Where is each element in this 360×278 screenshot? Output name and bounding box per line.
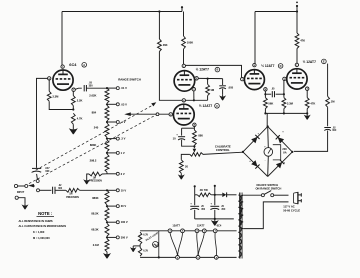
svg-text:E: E (323, 59, 325, 63)
wire bus to bridge top (266, 113, 268, 126)
capacitor 20uF output filter (210, 194, 219, 219)
label 46K (163, 43, 168, 47)
label 6C4 (69, 62, 77, 67)
label 6C4 heater (217, 224, 222, 228)
wire 100K to V2A plate (183, 49, 185, 64)
wire 46K to V2B plate (159, 52, 182, 101)
label note line 2 (19, 224, 67, 228)
tube V3A half 12AT7 (244, 70, 264, 90)
wire cathode bus (264, 109, 308, 115)
label 200 UA (282, 147, 287, 155)
svg-text:46K: 46K (163, 43, 168, 47)
ground chain2 (103, 252, 111, 259)
resistor 883K (105, 140, 109, 152)
resistor 2.62K (105, 88, 109, 103)
wire hum tap (133, 244, 140, 247)
svg-text:CONTROL: CONTROL (216, 148, 230, 152)
terminal input gnd (15, 196, 25, 203)
wire lamp rail (158, 231, 160, 258)
pin heater 5a (181, 229, 185, 233)
wire heater bottom bus (140, 256, 237, 258)
label .02 600 input (58, 185, 63, 190)
capacitor .047 600 DC block (32, 167, 41, 172)
tube V1 6C4 (53, 70, 73, 90)
wire heater lead 5 (215, 233, 217, 256)
svg-text:30 V: 30 V (121, 204, 127, 208)
capacitor .05 coupling (84, 85, 107, 91)
meter case bracket (273, 145, 281, 160)
label 12AT7 heaters B (197, 224, 205, 228)
svg-text:-: - (265, 158, 266, 162)
svg-text:883K: 883K (90, 143, 96, 147)
label 3.3M bias (287, 101, 294, 105)
switch S1 blade (28, 184, 35, 187)
label NOTE heading (37, 211, 55, 216)
diode D1 upper-left arm (251, 135, 259, 143)
svg-text:B: B (216, 68, 218, 72)
svg-text:47K: 47K (310, 101, 315, 105)
node tap .1V (106, 120, 126, 124)
svg-text:½ 12AT7: ½ 12AT7 (199, 104, 212, 108)
svg-text:RANGE SWITCH: RANGE SWITCH (118, 78, 141, 82)
diode D2 upper-right arm (276, 135, 284, 143)
node tap .03V (106, 102, 127, 106)
svg-text:300 V: 300 V (121, 235, 128, 239)
svg-text:1M: 1M (93, 177, 96, 179)
resistor 2.1M (105, 239, 109, 252)
label V2A circle (215, 67, 220, 72)
resistor 1M input precision (66, 188, 107, 192)
capacitor .02 600 AC input (53, 187, 66, 194)
capacitor 10uF bypass (178, 128, 194, 146)
svg-text:4K 7W: 4K 7W (200, 188, 209, 192)
svg-text:10 V: 10 V (121, 188, 127, 192)
svg-text:.3 V: .3 V (121, 137, 126, 141)
ground below .005 (219, 94, 226, 100)
wire heater top bus (140, 230, 237, 232)
svg-text:K = 1,000: K = 1,000 (33, 230, 45, 234)
svg-text:20: 20 (185, 164, 188, 168)
tube V3B half 12AT7 (287, 69, 307, 89)
wire plate resistor V2A (158, 12, 160, 40)
svg-text:100K: 100K (187, 41, 193, 45)
label PILOT LIGHT (145, 231, 160, 242)
capacitor .02 600 output (324, 128, 331, 131)
diode D4 lower-right arm (276, 160, 284, 168)
pin 3 of V2A (192, 88, 195, 92)
label 298.2 (90, 159, 97, 163)
pin 7 of V3A (241, 77, 244, 81)
label half 12AT7 C (261, 64, 274, 68)
pin 3 of V3B (306, 87, 309, 91)
tube V2B half 12AT7 (173, 104, 194, 125)
pin 6 of V2B (182, 99, 185, 103)
wire B+ rail V3B (296, 12, 298, 34)
resistor 68.3K (105, 223, 109, 236)
wire V2B cathode down (193, 127, 195, 131)
resistor hum balance lower (138, 247, 141, 256)
label 880 (198, 134, 203, 138)
svg-text:3.3M: 3.3M (52, 95, 59, 99)
ground filter (211, 219, 219, 226)
wire heater lead 3 (197, 233, 198, 256)
resistor 56K (264, 98, 268, 109)
svg-text:INPUT: INPUT (17, 191, 25, 194)
resistor 298.2 (105, 154, 109, 172)
wire B+ bus left section (62, 10, 182, 12)
switch S1 throw DC (36, 174, 39, 183)
label 1M input (66, 194, 79, 199)
label 20 (185, 164, 188, 168)
pin 6 of V1 (48, 77, 51, 81)
resistor 4.7K cathode (71, 113, 75, 127)
label 117V AC (283, 204, 300, 212)
pin heater 4b (195, 229, 199, 233)
label ON-OFF SWITCH (255, 183, 281, 190)
wire primary top to switch (243, 194, 261, 196)
wire V3B output drop (327, 64, 329, 97)
svg-text:2.2K: 2.2K (77, 99, 83, 103)
wire to output cap (327, 107, 329, 126)
capacitor .005 to ground (219, 79, 226, 95)
dashed mechanical link upper (32, 102, 157, 172)
wire heater lead 4 (198, 233, 204, 256)
label half 12AT7 B (199, 104, 212, 108)
label 6.3V top (143, 235, 148, 237)
label 100K (187, 41, 193, 45)
svg-text:.03 V: .03 V (121, 102, 127, 106)
resistor 883K ac (105, 190, 109, 205)
node chain1 top junction (106, 87, 108, 89)
tap 300V (106, 235, 128, 239)
wire heater lead 2 (178, 233, 183, 256)
wire V3B grid down (283, 81, 285, 98)
pin 6 of V3A (253, 63, 256, 67)
svg-text:12AT7: 12AT7 (172, 224, 180, 228)
label V2B circle (215, 104, 220, 109)
resistor 88.2K (105, 207, 109, 221)
pin 1 of V3B (295, 63, 298, 67)
wiper arrow (124, 112, 131, 116)
svg-text:50-60 CYCLE: 50-60 CYCLE (283, 208, 300, 212)
wire meter bottom lead (267, 156, 270, 176)
label half 12AT7 D (303, 60, 316, 64)
svg-text:6.3V: 6.3V (143, 235, 148, 237)
svg-text:600: 600 (45, 170, 50, 173)
label 2.2K (77, 99, 83, 103)
label 2.62K (89, 94, 96, 98)
pin heater 3c (213, 229, 217, 233)
node bridge right (291, 151, 293, 153)
resistor 3.3M grid leak (47, 80, 73, 109)
potentiometer wiper arrow (193, 149, 197, 153)
svg-text:A: A (83, 63, 85, 67)
ground hum balance (130, 246, 137, 252)
svg-text:6.3V: 6.3V (143, 250, 148, 252)
svg-text:UA: UA (283, 150, 287, 154)
svg-text:C: C (216, 104, 218, 108)
resistor 20 (179, 160, 183, 173)
tube V2A half 12AT7 (174, 71, 195, 92)
label 47K cathode (310, 101, 315, 105)
resistor 880 (193, 130, 197, 145)
svg-text:6C4: 6C4 (217, 224, 222, 228)
pin 2 of V3B (283, 77, 286, 81)
pin 8 of V3A (264, 88, 267, 92)
dashed mechanical link lower (29, 115, 156, 184)
label .047 600 (45, 167, 50, 173)
wire 6C4 plate to B+ (61, 12, 63, 66)
svg-text:M = 1,000,000: M = 1,000,000 (33, 236, 50, 240)
capacitor .05 between cathodes (267, 91, 284, 97)
label 240 (94, 126, 99, 130)
node bridge top (267, 125, 269, 127)
resistor 1M V2A cathode (206, 79, 210, 101)
label RANGE SWITCH (118, 78, 141, 82)
wire 47K to V3B plate (296, 49, 298, 64)
svg-text:880: 880 (198, 134, 203, 138)
svg-text:883K: 883K (92, 196, 98, 200)
label .005 (228, 85, 234, 89)
resistor 2.2K cathode (71, 91, 75, 110)
svg-text:200: 200 (282, 147, 287, 151)
tap 10V (107, 188, 126, 192)
svg-text:PRECISION: PRECISION (66, 197, 79, 199)
transformer primary winding (240, 195, 243, 228)
wire bridge arm lower-right (268, 152, 293, 177)
tap 30V (106, 204, 127, 208)
svg-text:3 V: 3 V (121, 172, 125, 176)
plug P1 117V AC (294, 192, 302, 204)
label 12AT7 heaters A (172, 224, 180, 228)
pin heater 9a (176, 256, 180, 260)
svg-text:47K: 47K (300, 39, 305, 43)
node chain2 top (106, 189, 108, 191)
label 2.1M (93, 243, 100, 247)
node B+ terminal left (181, 6, 183, 11)
wire pot left leg (181, 154, 190, 159)
pin 7 of V2B (169, 113, 172, 117)
svg-text:ALL RESISTANCE IN OHMS: ALL RESISTANCE IN OHMS (19, 219, 53, 223)
svg-text:½ 12AT7: ½ 12AT7 (303, 60, 316, 64)
ground chain1 (83, 178, 90, 184)
meter M1 200uA (264, 145, 273, 162)
transformer T1 core (240, 193, 242, 259)
ground below 4.7K (69, 127, 78, 134)
svg-text:1 V: 1 V (121, 151, 125, 155)
svg-text:117 V AC: 117 V AC (283, 204, 294, 208)
pin 1 of V1 (61, 65, 64, 69)
tap .01V (107, 86, 127, 90)
svg-text:12AT7: 12AT7 (197, 224, 205, 228)
wire primary bottom loop (243, 202, 288, 229)
label 20 350 left (201, 206, 206, 211)
switch S2 on-off (261, 191, 288, 197)
label 1M output (331, 100, 335, 104)
terminal input hot (14, 184, 24, 187)
diode D3 lower-left arm (251, 160, 259, 168)
label note line 1 (19, 219, 53, 223)
resistor 240 (105, 123, 109, 137)
pin 8 of V2B (193, 123, 196, 127)
label CALIBRATE CONTROL (215, 145, 231, 152)
wire output to bridge right (294, 131, 328, 152)
svg-text:ALL CAPACITANCE IN MICROFAR: ALL CAPACITANCE IN MICROFARADS (19, 224, 67, 228)
resistor 47K plate (295, 33, 299, 49)
wire V3A cathode down (264, 91, 266, 98)
wire heater lead 1 (170, 233, 178, 256)
resistor 4K 7W filter (195, 193, 223, 197)
resistor 1M output (326, 96, 330, 107)
resistor hum balance upper (138, 232, 141, 244)
label plus marks (249, 130, 285, 164)
wire V3B cathode down (306, 90, 308, 97)
pin heater 4a (168, 229, 172, 233)
wire plate resistor V2A top (183, 12, 185, 37)
node B+ terminal right (296, 2, 298, 13)
wire bridge arm upper-left (243, 127, 268, 152)
wire V1 cathode (75, 88, 82, 89)
svg-text:68.3K: 68.3K (91, 227, 98, 231)
wire B+ to V3A plate (254, 12, 256, 64)
node cathode junction (193, 145, 195, 148)
label .05 cathode (271, 87, 275, 90)
wire pot to bridge (203, 152, 243, 154)
wire bridge arm lower-left (243, 152, 268, 177)
svg-text:4.7K: 4.7K (77, 117, 83, 121)
label 4K 7W (200, 188, 209, 192)
resistor 1M precision to ground (87, 172, 107, 178)
label 56K (268, 101, 273, 105)
svg-text:100 V: 100 V (121, 220, 128, 224)
svg-text:2.62K: 2.62K (89, 94, 96, 98)
diode rectifier (222, 192, 236, 197)
ground below 20 (178, 173, 185, 179)
label 47K plate (300, 39, 305, 43)
svg-text:10: 10 (173, 137, 176, 141)
pin 1 of V2A (182, 64, 185, 68)
svg-text:2.1M: 2.1M (93, 243, 100, 247)
ground input (22, 203, 29, 209)
label 4.7K (77, 117, 83, 121)
lamp pilot (153, 242, 159, 248)
label 884 (92, 110, 97, 114)
label 20 350 right (221, 206, 226, 211)
switch S1 pole (25, 185, 28, 188)
ground cathode bus (304, 113, 311, 119)
pin heater 4c (214, 256, 218, 260)
resistor 46K (158, 39, 162, 52)
transformer secondary winding (238, 195, 241, 257)
label note line 3 (33, 230, 45, 234)
pin 7 of V1 (72, 88, 75, 92)
svg-text:.01 V: .01 V (121, 86, 127, 90)
wire V2A cathode right (198, 78, 222, 80)
label 883K (90, 143, 96, 147)
switch S1 throw AC (37, 189, 52, 192)
label .05 350 (89, 82, 94, 88)
label 1M (210, 88, 214, 92)
wire meter top lead (267, 127, 270, 148)
wire bridge arm upper-right (268, 127, 293, 152)
wire V2A plate to V3A grid (186, 65, 242, 77)
pin heater 9b (196, 256, 200, 260)
resistor 100K (182, 36, 186, 49)
tap 3V (107, 172, 125, 176)
svg-text:240: 240 (94, 126, 99, 130)
svg-text:1M: 1M (69, 194, 72, 196)
label V3B circle (322, 59, 327, 64)
label note line 4 (33, 236, 50, 240)
wire wiper arm (130, 113, 169, 115)
resistor 3.3M bias (282, 98, 286, 109)
svg-text:½ 12AT7: ½ 12AT7 (196, 68, 209, 72)
svg-text:88.2K: 88.2K (91, 212, 98, 216)
svg-text:½ 12AT7: ½ 12AT7 (261, 64, 274, 68)
label V3A circle (278, 64, 283, 69)
svg-text:3.3M: 3.3M (287, 101, 294, 105)
label half 12AT7 A (196, 68, 209, 72)
label 6.3V bottom (143, 250, 148, 252)
node B+ feed dots (194, 185, 216, 195)
resistor 884 (105, 105, 109, 120)
tap 100V (106, 220, 128, 224)
wire filter ground bus (195, 218, 234, 220)
svg-text:.005: .005 (228, 85, 234, 89)
label 1M precision (89, 177, 102, 182)
node wiper rotor contact (156, 113, 159, 116)
label 10uF plus (173, 132, 179, 140)
svg-text:298.2: 298.2 (90, 159, 97, 163)
svg-text:56K: 56K (268, 101, 273, 105)
svg-text:350: 350 (89, 84, 94, 87)
svg-text:PRECISION: PRECISION (89, 181, 102, 183)
wire V1 grid to left rail (37, 78, 48, 167)
label .02 600 (332, 127, 337, 132)
svg-text:D: D (280, 64, 282, 68)
label INPUT (17, 191, 25, 194)
label 883K ac (92, 196, 98, 200)
potentiometer CALIBRATE 1K (190, 153, 203, 157)
tap .3V (106, 137, 126, 141)
label 88.2K (91, 212, 98, 216)
node bridge left (242, 151, 244, 153)
label 68.3K (91, 227, 98, 231)
pin heater 5b (202, 229, 206, 233)
label V1 circle A (82, 63, 87, 68)
capacitor 20uF input filter (190, 195, 199, 219)
svg-text:ON-OFF SWITCH: ON-OFF SWITCH (256, 183, 278, 187)
svg-text:6C4: 6C4 (69, 62, 77, 67)
wire B+ bus right section (255, 11, 297, 13)
wire V2A pin3 down (193, 91, 195, 100)
pin 2 of V2A (195, 77, 198, 81)
svg-text:ON RANGE SWITCH: ON RANGE SWITCH (255, 186, 281, 190)
label 3.3M (52, 95, 59, 99)
tap 1V (106, 151, 125, 155)
resistor 47K cathode (305, 98, 309, 109)
svg-text:NOTE :: NOTE : (38, 211, 52, 216)
svg-text:884: 884 (92, 110, 97, 114)
wire V2B pin row (182, 99, 208, 101)
